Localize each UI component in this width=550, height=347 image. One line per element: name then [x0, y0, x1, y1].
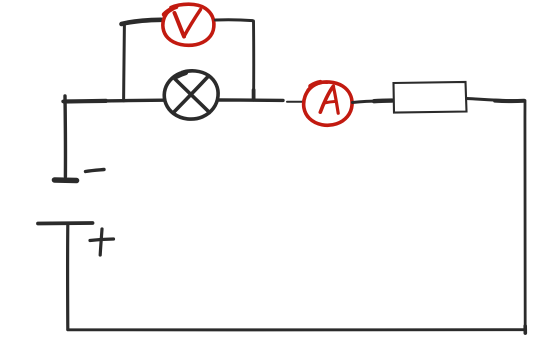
voltmeter U1 letter V — [175, 10, 201, 37]
wire main horizontal left segment — [63, 100, 163, 101]
wire voltmeter branch right vertical — [252, 21, 255, 100]
label plus sign — [90, 229, 114, 255]
wire battery top vertical — [63, 96, 67, 177]
wire voltmeter branch top-right horizontal — [216, 18, 253, 22]
lamp L1 cross — [174, 76, 210, 113]
lamp L1 circle — [164, 71, 218, 119]
wire resistor to right corner — [467, 99, 525, 102]
resistor R1 body — [394, 82, 467, 113]
ammeter U2 letter A — [320, 86, 338, 113]
voltmeter U1 circle — [163, 4, 214, 45]
wire battery bottom vertical — [66, 225, 69, 330]
ammeter U2 circle — [304, 82, 352, 125]
wire main horizontal lamp to junction — [219, 98, 284, 102]
wire voltmeter branch top-left horizontal — [122, 20, 162, 24]
battery B1 negative plate — [55, 177, 77, 183]
wire right vertical — [523, 101, 526, 334]
battery B1 positive plate — [38, 221, 93, 225]
wire ammeter to resistor — [353, 101, 393, 103]
wire main thin link to ammeter — [287, 101, 305, 103]
label minus sign — [86, 170, 105, 172]
wire voltmeter branch left vertical — [122, 25, 126, 101]
wire bottom horizontal — [68, 328, 526, 331]
